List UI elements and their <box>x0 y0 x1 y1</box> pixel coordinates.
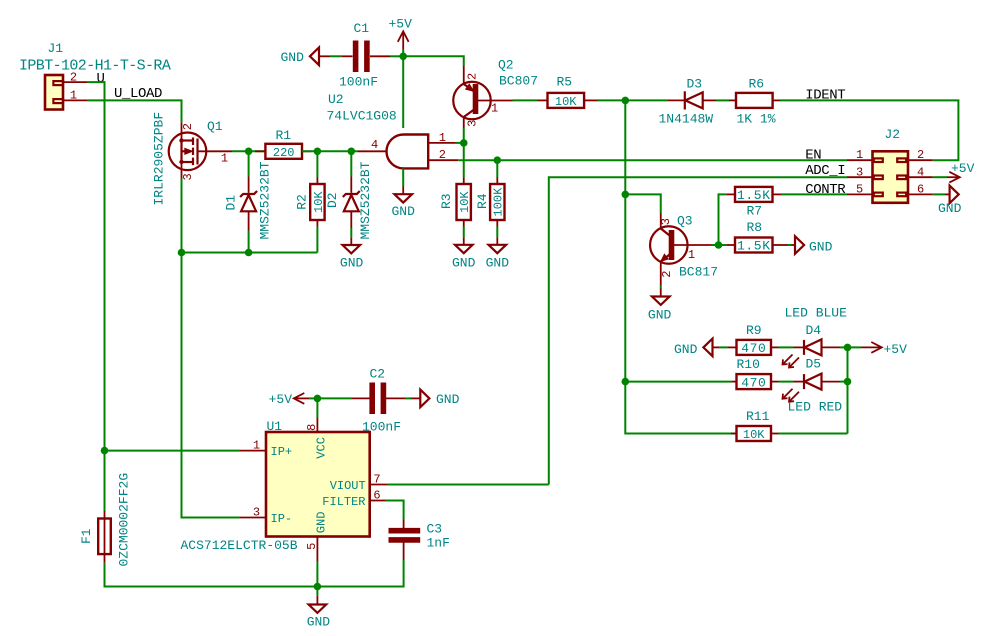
svg-text:R3: R3 <box>439 193 454 209</box>
node junction +5V / C1 / U2 / Q2 <box>399 53 407 61</box>
capacitor C3 1nF <box>389 520 450 561</box>
LED D4 <box>783 323 841 368</box>
node junction +5V / C2 / U1 VCC <box>314 395 322 403</box>
svg-text:R7: R7 <box>747 204 763 219</box>
svg-text:2: 2 <box>917 148 924 162</box>
svg-text:BC817: BC817 <box>679 265 718 280</box>
pin 2 of J1 <box>63 71 87 85</box>
ground at U2 <box>392 187 416 220</box>
wire R9 to D4 <box>779 346 794 348</box>
node junction rail at Q1 source <box>178 249 186 257</box>
svg-text:R11: R11 <box>746 409 770 424</box>
wire R8 to ground <box>788 244 792 246</box>
svg-text:6: 6 <box>917 183 924 197</box>
svg-text:74LVC1G08: 74LVC1G08 <box>327 109 397 124</box>
svg-text:10K: 10K <box>743 428 765 442</box>
node junction Q3 base / R7 / R8 <box>715 241 723 249</box>
svg-text:1nF: 1nF <box>427 536 450 551</box>
svg-text:8: 8 <box>305 424 319 431</box>
wire C3 down to bottom rail <box>317 560 403 587</box>
svg-text:+5V: +5V <box>951 161 975 176</box>
wire IDENT net R6 to J2 pin2 <box>780 100 958 160</box>
wire ADC_I net from U1 VIOUT corner to J2 pin3 <box>549 177 847 484</box>
svg-text:C1: C1 <box>354 21 370 36</box>
diode D2 zener <box>325 161 373 239</box>
resistor R1 <box>255 128 311 160</box>
svg-text:R6: R6 <box>749 77 765 92</box>
svg-text:10K: 10K <box>555 95 577 109</box>
svg-text:1: 1 <box>688 248 695 262</box>
svg-text:2: 2 <box>466 73 480 80</box>
wire junction to +5V <box>848 346 862 348</box>
pin 2 of U2 <box>428 148 458 162</box>
ground at R4 <box>486 238 510 270</box>
wire C1 to +5V junction <box>390 55 403 57</box>
svg-text:220: 220 <box>273 146 295 160</box>
wire R11 right to vertical corner <box>779 433 848 435</box>
wire J2 pin6 to ground <box>933 193 945 195</box>
resistor R6 <box>729 77 780 127</box>
power +5V at C2 <box>269 392 309 407</box>
svg-text:IPBT-102-H1-T-S-RA: IPBT-102-H1-T-S-RA <box>19 58 171 75</box>
svg-text:3: 3 <box>181 173 195 180</box>
wire net U_LOAD from J1 pin1 to Q1 drain <box>87 100 182 122</box>
svg-text:D1: D1 <box>224 195 239 211</box>
svg-text:1: 1 <box>856 148 863 162</box>
wire C1 gnd side <box>330 55 342 57</box>
pin 1 of J2 <box>847 148 873 162</box>
wire R4 to ground <box>496 227 498 239</box>
wire junction down to U1 VCC <box>316 398 318 417</box>
resistor R7 <box>726 187 781 219</box>
wire U junction down to F1 <box>104 451 106 511</box>
svg-text:GND: GND <box>938 201 962 216</box>
svg-text:D3: D3 <box>687 77 703 92</box>
wire C2 to ground <box>405 397 411 399</box>
pin 3 of J2 <box>847 165 873 179</box>
svg-text:3: 3 <box>253 506 260 520</box>
wire +5V to C2 junction <box>309 397 317 399</box>
transistor Q3 <box>650 213 718 285</box>
ground at R3 <box>452 238 476 270</box>
svg-text:3: 3 <box>856 165 863 179</box>
svg-text:0ZCM0002FF2G: 0ZCM0002FF2G <box>117 473 132 567</box>
wire +5V junction down to U2 <box>402 56 404 128</box>
pin 4 of U2 <box>357 138 386 152</box>
wire +5V junction to Q2 emitter <box>403 56 464 66</box>
svg-text:1.5K: 1.5K <box>737 239 771 254</box>
svg-text:Q2: Q2 <box>498 58 514 73</box>
resistor R11 <box>731 409 779 442</box>
svg-text:6: 6 <box>373 488 380 502</box>
wire Q2 base to R5 <box>513 99 538 101</box>
svg-text:F1: F1 <box>79 528 94 544</box>
svg-text:J1: J1 <box>48 41 64 56</box>
pin 5 of J2 <box>847 183 873 197</box>
node junction U vertical / IP+ <box>101 447 109 455</box>
wire FILTER pin6 to C3 <box>385 501 404 520</box>
svg-text:470: 470 <box>741 341 766 356</box>
svg-text:10K: 10K <box>312 191 326 213</box>
svg-text:GND: GND <box>315 512 329 534</box>
svg-text:GND: GND <box>648 307 672 322</box>
capacitor C1 100nF <box>339 21 390 90</box>
wire D2 anode to ground <box>350 228 352 237</box>
wire Q3 emitter to ground <box>660 285 662 289</box>
wire gnd to R9 <box>719 346 728 348</box>
wire junction down to D2 <box>350 151 352 176</box>
transistor Q2 <box>453 58 538 129</box>
svg-text:C2: C2 <box>370 367 386 382</box>
resistor R3 <box>439 178 472 227</box>
power +5V top <box>389 16 413 56</box>
svg-text:J2: J2 <box>885 127 901 142</box>
svg-text:4: 4 <box>371 138 378 152</box>
resistor R10 <box>732 357 779 390</box>
wire VIOUT from pin7 to ADC vertical <box>387 484 549 486</box>
svg-text:R9: R9 <box>746 323 762 338</box>
wire junction down to R3 <box>463 143 465 178</box>
svg-text:D4: D4 <box>806 323 822 338</box>
wire Q1 gate to junction <box>232 150 265 152</box>
svg-text:GND: GND <box>436 392 460 407</box>
wire Q1 source down to rail and to U1 IP- <box>182 179 241 518</box>
svg-text:1: 1 <box>221 151 228 165</box>
svg-text:1: 1 <box>491 102 498 116</box>
svg-text:R1: R1 <box>276 128 292 143</box>
ground at D2 <box>340 237 364 270</box>
svg-text:10K: 10K <box>458 191 472 213</box>
svg-text:1: 1 <box>439 131 446 145</box>
wire EN junction down to R4 <box>496 160 498 177</box>
svg-text:1: 1 <box>70 89 77 103</box>
svg-text:2: 2 <box>70 71 77 85</box>
wire U2 pin1 junction stub <box>455 142 464 144</box>
node junction D4 / +5V <box>844 344 852 352</box>
svg-text:3: 3 <box>466 120 480 127</box>
svg-text:GND: GND <box>809 239 833 254</box>
svg-text:1N4148W: 1N4148W <box>659 112 714 127</box>
svg-text:IP+: IP+ <box>271 445 293 459</box>
fuse F1 <box>79 473 132 567</box>
wire CONTR net R7 to J2 pin5 <box>781 193 847 195</box>
ground at R8 <box>792 236 833 254</box>
wire junction to C2 <box>317 397 352 399</box>
wire U2 bottom to ground <box>402 168 404 186</box>
svg-text:LED RED: LED RED <box>788 400 843 415</box>
resistor R2 <box>295 178 326 227</box>
wire EN net U2 pin2 to J2 pin1 <box>458 159 847 161</box>
transistor Q1 <box>152 112 233 206</box>
op-amp U2 AND gate 74LVC1G08 <box>327 92 429 168</box>
wire junction to R8 <box>719 244 727 246</box>
wire R3 to ground <box>463 227 465 239</box>
ground at C1 <box>281 48 331 66</box>
svg-text:5: 5 <box>856 183 863 197</box>
svg-text:GND: GND <box>392 204 416 219</box>
ground at Q3 <box>648 289 672 323</box>
wire junction to Q3 collector <box>625 194 660 213</box>
wire vertical from R5 junction down to R11 corner <box>625 100 736 433</box>
svg-text:CONTR: CONTR <box>805 182 846 198</box>
wire junction to R10 <box>625 381 732 383</box>
node junction D5 / vertical <box>844 378 852 386</box>
svg-text:LED BLUE: LED BLUE <box>785 306 848 321</box>
capacitor C2 100nF <box>352 367 405 435</box>
ground at R9 <box>674 339 719 357</box>
svg-text:FILTER: FILTER <box>322 495 365 509</box>
node junction vertical / Q3 collector branch <box>622 191 630 199</box>
svg-text:R2: R2 <box>295 194 310 210</box>
wire IP+ net from U junction to pin1 <box>105 450 241 452</box>
svg-text:U1: U1 <box>267 419 283 434</box>
svg-text:GND: GND <box>674 342 698 357</box>
wire Q3 base to junction <box>711 244 719 246</box>
svg-text:U: U <box>97 71 105 87</box>
pin 1 IP+ of U1 <box>240 439 292 459</box>
IC U1 ACS712 <box>181 419 370 553</box>
svg-text:+5V: +5V <box>884 342 908 357</box>
node junction R5 / D3 / vertical <box>622 97 630 105</box>
pin 7 VIOUT of U1 <box>330 472 387 493</box>
pin 5 GND of U1 <box>305 512 329 561</box>
wire net U from J1 pin2 down to fuse junction <box>87 82 105 451</box>
svg-text:1K 1%: 1K 1% <box>737 112 776 127</box>
svg-text:EN: EN <box>805 147 821 163</box>
svg-text:C3: C3 <box>427 522 443 537</box>
resistor R9 <box>728 323 779 356</box>
svg-text:D2: D2 <box>325 192 340 208</box>
svg-text:Q1: Q1 <box>207 119 223 134</box>
ground at C2 <box>411 390 460 408</box>
svg-text:1.5K: 1.5K <box>737 188 771 203</box>
node junction EN / R4 <box>494 156 502 164</box>
wire U1 pin5 to bottom rail <box>316 561 318 587</box>
svg-text:GND: GND <box>281 50 305 65</box>
ground at J2 pin6 <box>938 186 962 216</box>
wire R2 bottom to rail <box>316 227 318 253</box>
svg-text:GND: GND <box>452 255 476 270</box>
wire D3 to R6 <box>716 99 729 101</box>
node junction Q1 gate / D1 / R1 <box>245 148 253 156</box>
svg-text:R4: R4 <box>475 193 490 209</box>
node junction D2 <box>348 148 356 156</box>
power +5V at J2 <box>947 161 975 183</box>
LED D5 <box>783 357 841 402</box>
svg-text:2: 2 <box>181 123 195 130</box>
svg-text:VCC: VCC <box>315 437 329 459</box>
svg-text:2: 2 <box>660 271 674 278</box>
svg-text:470: 470 <box>741 375 766 390</box>
svg-text:7: 7 <box>373 472 380 486</box>
pin 6 of J2 <box>908 183 933 197</box>
wire R5 to junction <box>598 99 669 101</box>
pin 6 FILTER of U1 <box>322 488 385 509</box>
node junction rail at D1 <box>245 249 253 257</box>
svg-text:BC807: BC807 <box>499 74 538 89</box>
wire D1 anode to bottom rail <box>248 231 250 253</box>
wire D5 to vertical junction <box>840 381 848 383</box>
diode D3 <box>659 77 717 127</box>
svg-text:U2: U2 <box>328 92 344 107</box>
connector J2 <box>873 127 909 203</box>
svg-text:R5: R5 <box>557 75 573 90</box>
svg-text:+5V: +5V <box>389 16 413 31</box>
svg-text:+5V: +5V <box>269 392 293 407</box>
node junction R10 tap on vertical <box>622 378 630 386</box>
pin 8 VCC of U1 <box>305 418 329 459</box>
resistor R5 <box>538 75 598 109</box>
pin 2 of J2 <box>908 148 933 162</box>
svg-text:GND: GND <box>340 256 364 271</box>
node junction bottom rail / U1 GND <box>314 583 322 591</box>
node junction U2 pin1 / Q2 collector / R3 <box>460 139 468 147</box>
pin 3 IP- of U1 <box>240 506 292 526</box>
wire junction down to D1 <box>248 151 250 176</box>
svg-text:MMSZ5232BT: MMSZ5232BT <box>358 161 373 239</box>
svg-text:100K: 100K <box>492 187 506 217</box>
svg-text:GND: GND <box>307 615 331 630</box>
pin 1 of U2 <box>428 131 455 145</box>
wire +5V junction down to D5 junction <box>847 347 849 433</box>
svg-text:MMSZ5232BT: MMSZ5232BT <box>258 161 273 239</box>
wire bottom rail to F1 <box>105 563 318 587</box>
svg-text:GND: GND <box>486 255 510 270</box>
wire junction up to R7 <box>719 194 727 245</box>
diode D1 zener <box>224 161 273 239</box>
wire R1 right to junctions <box>302 150 357 152</box>
svg-text:2: 2 <box>439 148 446 162</box>
svg-text:IRLR2905ZPBF: IRLR2905ZPBF <box>152 112 167 206</box>
node junction R1/R2 <box>314 148 322 156</box>
svg-text:1: 1 <box>253 439 260 453</box>
svg-text:D5: D5 <box>806 357 822 372</box>
pin 1 of J1 <box>63 89 87 103</box>
ground at U1 <box>307 587 331 630</box>
svg-text:100nF: 100nF <box>339 74 378 89</box>
bottom rail wire Q1 area <box>182 252 318 254</box>
svg-text:R10: R10 <box>737 357 760 372</box>
svg-text:5: 5 <box>305 543 319 550</box>
svg-text:R8: R8 <box>747 220 763 235</box>
wire R10 to D5 <box>779 381 794 383</box>
wire Q2 collector down to U2 pin1 junction <box>463 128 465 143</box>
resistor R8 <box>726 220 787 254</box>
pin 4 of J2 <box>908 165 933 179</box>
wire junction down to R2 <box>316 151 318 177</box>
svg-text:Q3: Q3 <box>677 214 693 229</box>
svg-text:4: 4 <box>917 165 924 179</box>
svg-text:3: 3 <box>659 218 673 225</box>
resistor R4 <box>475 178 505 227</box>
wire D4 to +5V junction <box>840 346 848 348</box>
svg-text:ACS712ELCTR-05B: ACS712ELCTR-05B <box>181 538 298 553</box>
svg-text:IP-: IP- <box>271 512 293 526</box>
svg-text:VIOUT: VIOUT <box>330 479 366 493</box>
connector J1 <box>19 41 171 110</box>
power +5V at D4 <box>861 342 907 357</box>
wire J2 pin4 to +5V <box>933 176 947 178</box>
